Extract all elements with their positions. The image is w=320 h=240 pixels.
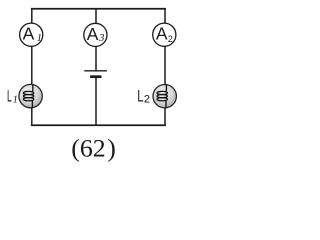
svg-text:L: L <box>7 86 12 105</box>
svg-text:L: L <box>137 87 143 106</box>
svg-text:2: 2 <box>168 34 173 44</box>
lamp L1 <box>19 84 42 108</box>
wire right branch upper (top wire to A2) <box>164 9 166 24</box>
battery long plate (+) <box>84 70 107 72</box>
ammeter A3 <box>84 23 107 46</box>
ammeter A1 <box>20 23 43 46</box>
label L2 <box>137 87 150 106</box>
svg-text:1: 1 <box>37 32 42 44</box>
wire left branch upper (top wire to A1) <box>31 9 33 24</box>
svg-text:A: A <box>87 24 99 44</box>
svg-text:3: 3 <box>98 32 105 44</box>
battery cell B1 <box>84 71 107 77</box>
svg-text:A: A <box>23 24 35 44</box>
svg-text:1: 1 <box>13 94 18 105</box>
svg-text:2: 2 <box>144 94 150 106</box>
wire middle branch upper (top wire to A3) <box>95 9 97 24</box>
filament coil L1 <box>23 91 33 94</box>
wire left branch mid (A1 to L1) <box>31 46 33 84</box>
wire right branch mid (A2 to L2) <box>164 46 166 84</box>
wire middle branch mid (A3 to battery) <box>95 46 97 70</box>
lamp L2 <box>153 84 176 108</box>
label L1 <box>7 86 18 105</box>
wire bottom horizontal <box>32 124 165 126</box>
svg-text:(62): (62) <box>71 134 116 163</box>
wire top horizontal <box>32 8 165 10</box>
wire left branch lower (L1 to bottom wire) <box>31 108 33 125</box>
battery short thick plate (-) <box>90 75 101 78</box>
ammeter A2 <box>153 23 176 46</box>
svg-text:A: A <box>156 24 168 44</box>
wire middle branch lower (battery to bottom wire) <box>95 77 97 126</box>
filament coil L2 <box>157 91 167 94</box>
wire right branch lower (L2 to bottom wire) <box>164 108 166 125</box>
